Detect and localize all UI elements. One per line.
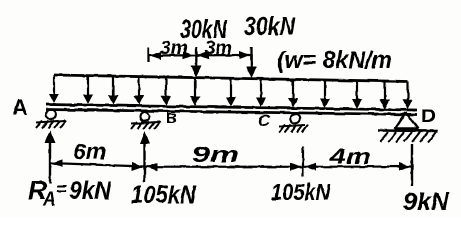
svg-text:30kN: 30kN [244,11,296,41]
svg-text:4m: 4m [329,144,371,169]
reaction line at D [411,144,413,186]
roller support A [36,110,66,128]
svg-text:6m: 6m [73,139,106,164]
pin support D [378,113,438,132]
point load arrow P1 30kN [191,55,202,77]
svg-text:3m: 3m [160,38,188,59]
svg-text:9kN: 9kN [69,177,112,205]
svg-text:A: A [12,95,28,120]
svg-text:A: A [42,189,56,209]
svg-text:=: = [56,179,67,199]
dimension line A-B [50,163,145,167]
reaction arrow at A [45,130,56,184]
svg-text:105kN: 105kN [271,179,330,205]
point load arrow P2 30kN [246,55,257,78]
tick line at C [302,146,304,177]
svg-text:9m: 9m [192,142,239,167]
dimension line B-C [145,166,304,168]
reaction arrow at B [140,131,151,182]
roller support B [131,112,160,129]
svg-text:105kN: 105kN [131,181,197,209]
roller support C [279,114,308,133]
svg-text:B: B [166,110,177,127]
dim arrowheads 3m [150,51,250,60]
dimension line C-D [303,165,412,168]
dimension line 3m/3m [149,47,252,62]
reaction label RA = 9kN [28,175,112,209]
svg-text:C: C [258,111,271,130]
distributed load arrows [49,75,413,109]
svg-text:9kN: 9kN [403,188,450,216]
svg-text:3m: 3m [205,38,232,59]
pin support D hatching [380,132,436,142]
svg-text:(w= 8kN/m: (w= 8kN/m [277,47,392,74]
distributed load top line [54,75,409,82]
svg-text:D: D [421,106,436,126]
beam (double line) [46,105,417,115]
